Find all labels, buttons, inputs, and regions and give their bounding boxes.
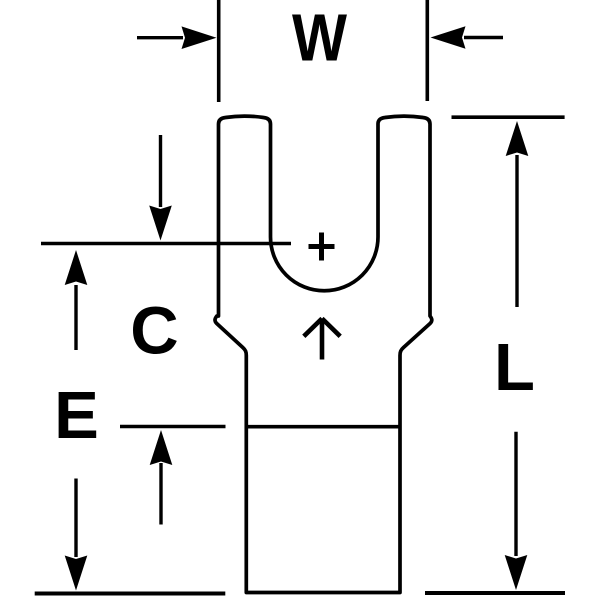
bottom reference line right [425,591,565,595]
C reference line [41,242,291,246]
fork terminal outline [215,116,432,592]
E dimension line [120,425,226,429]
E arrow up (tip at C line) [65,250,88,350]
svg-text:E: E [54,378,99,453]
barrel top line (object edge across barrel) [246,425,400,429]
plus mark (stud hole center) [309,233,335,261]
W arrow left [137,26,217,49]
L arrow up [506,121,529,307]
L arrow down [505,432,528,590]
bottom reference line left [35,592,226,596]
C arrow up (below, pointing at E line) [150,430,173,525]
W extension line left [217,0,221,102]
svg-text:C: C [130,294,178,369]
L top reference line [452,115,565,119]
up arrow glyph inside body [304,319,340,360]
W extension line right [425,0,429,101]
E arrow down (tip at bottom line) [65,479,88,591]
C arrow down (above line) [149,135,172,241]
W arrow right [431,26,504,49]
svg-text:L: L [494,330,535,405]
svg-text:W: W [292,1,348,76]
